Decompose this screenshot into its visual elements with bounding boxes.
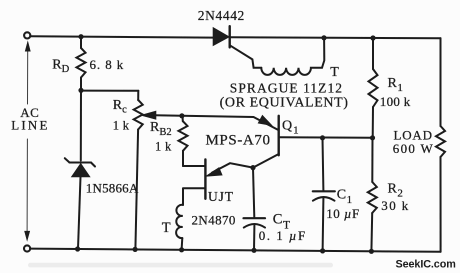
svg-text:R2: R2 [388, 182, 403, 200]
node dot top transformer [321, 35, 326, 40]
node dot top R1 [370, 35, 375, 40]
Q1 emitter arrowhead [258, 116, 271, 126]
wire RD top stub [80, 37, 82, 48]
capacitor C1 bottom plate (curved) [313, 197, 335, 201]
svg-text:2N4442: 2N4442 [198, 8, 245, 23]
zener diode 1N5866A bar [70, 161, 92, 163]
wire RD node to zener [80, 90, 82, 160]
wire right rail upper [440, 38, 442, 126]
svg-text:RB2: RB2 [150, 120, 172, 138]
wire RC top stub [137, 91, 139, 100]
svg-text:10 µF: 10 µF [326, 206, 359, 221]
svg-text:LOAD: LOAD [394, 127, 433, 142]
svg-text:SeekIC.com: SeekIC.com [396, 259, 456, 271]
wire RB2 bottom [182, 151, 184, 166]
capacitor CT bottom plate (curved) [244, 224, 265, 228]
svg-text:MPS-A70: MPS-A70 [206, 133, 271, 149]
node dot wiper/RB2 [179, 113, 184, 118]
resistor R2 30k zigzag [368, 182, 377, 213]
wire RD bottom stub [80, 78, 82, 91]
wire top rail left of SCR [31, 36, 214, 37]
svg-text:SPRAGUE 11Z12: SPRAGUE 11Z12 [230, 81, 343, 96]
wire right rail lower [440, 157, 442, 252]
node dot base/R2 [370, 135, 375, 140]
wire R1 bottom stub [372, 107, 374, 138]
UJT emitter arrowhead [206, 168, 222, 176]
wire R2 bottom stub [370, 213, 373, 252]
svg-text:100 k: 100 k [380, 94, 411, 109]
terminal top-left [24, 32, 30, 38]
resistor R1 100k zigzag [369, 69, 378, 107]
svg-text:LINE: LINE [11, 117, 49, 132]
wire RB2 top stub [182, 116, 184, 122]
svg-text:C1: C1 [337, 188, 352, 206]
wire wiper to node [155, 114, 182, 117]
AC line arrow lower [26, 139, 28, 233]
wire RD node to RC top [81, 90, 138, 92]
zener left tick [65, 158, 70, 162]
wire UJT B2 lead [183, 165, 205, 167]
inductor T coil (UJT side) [176, 205, 183, 238]
wire B1 down to coil [182, 189, 184, 206]
wire top rail right of SCR [230, 37, 441, 38]
svg-text:T: T [162, 220, 171, 236]
wire coil to bottom rail [181, 238, 184, 250]
wire node to CT [253, 168, 254, 217]
potentiometer RC wiper arrow [142, 111, 156, 119]
svg-text:1N5866A: 1N5866A [86, 180, 139, 195]
Q1 base wire to divider [280, 136, 373, 139]
capacitor CT top plate [244, 217, 266, 219]
Q1 collector wire [253, 154, 279, 168]
Q1 emitter wire [182, 116, 278, 130]
zener right tick [91, 163, 95, 167]
SCR 2N4442 triangle [213, 28, 229, 46]
svg-text:30 k: 30 k [381, 198, 409, 213]
zener triangle [72, 164, 90, 177]
svg-text:Q1: Q1 [282, 118, 299, 136]
wire R2 top stub [371, 138, 373, 182]
svg-text:UJT: UJT [208, 189, 234, 204]
node dot top RD [78, 34, 83, 39]
transistor Q1 MPS-A70 base bar [278, 116, 280, 156]
wire C1 to bottom rail [322, 199, 325, 252]
node dot bottom CT [251, 248, 256, 253]
wire C1 top [322, 138, 325, 191]
svg-text:RD: RD [52, 58, 69, 76]
wire zener to bottom [78, 177, 81, 249]
wire R1 top stub [372, 38, 374, 69]
capacitor C1 top plate [313, 190, 335, 192]
load resistor 600W zigzag [436, 126, 445, 157]
svg-text:T: T [330, 65, 339, 80]
svg-text:(OR EQUIVALENT): (OR EQUIVALENT) [220, 95, 349, 110]
node dot base/C1 [320, 135, 325, 140]
UJT emitter wire from node [212, 163, 253, 172]
svg-text:600 W: 600 W [393, 141, 434, 156]
AC line arrow upper [27, 51, 29, 105]
node dot bottom coil [179, 247, 184, 252]
SCR gate wire [230, 45, 261, 68]
svg-text:Rc: Rc [113, 98, 127, 116]
wire UJT B1 lead [183, 187, 205, 189]
transformer T coil (Sprague 11Z12) [261, 38, 324, 75]
node dot bottom RC [133, 247, 138, 252]
SCR cathode bar [228, 26, 230, 47]
wire CT to bottom rail [253, 226, 255, 251]
terminal bottom-left [24, 245, 30, 251]
resistor RB2 1k zigzag [179, 121, 188, 151]
node dot bottom R2 [369, 249, 374, 254]
svg-text:1 k: 1 k [113, 119, 130, 133]
UJT 2N4870 base bar [204, 160, 206, 199]
svg-text:R1: R1 [388, 76, 403, 94]
node dot bottom C1 [320, 248, 325, 253]
potentiometer RC 1k zigzag [134, 100, 143, 130]
svg-text:6. 8 k: 6. 8 k [90, 57, 125, 72]
scan smudge [28, 263, 333, 268]
resistor RD 6.8k zigzag [77, 48, 86, 78]
svg-text:1 k: 1 k [155, 139, 172, 153]
node dot collector/CT [250, 165, 255, 170]
svg-text:0. 1 µF: 0. 1 µF [259, 228, 307, 243]
wire bottom rail [30, 249, 440, 252]
node dot bottom zener [75, 246, 80, 251]
node dot RD bottom [78, 88, 83, 93]
svg-text:2N4870: 2N4870 [192, 213, 236, 228]
wire RC bottom to rail [135, 130, 138, 249]
